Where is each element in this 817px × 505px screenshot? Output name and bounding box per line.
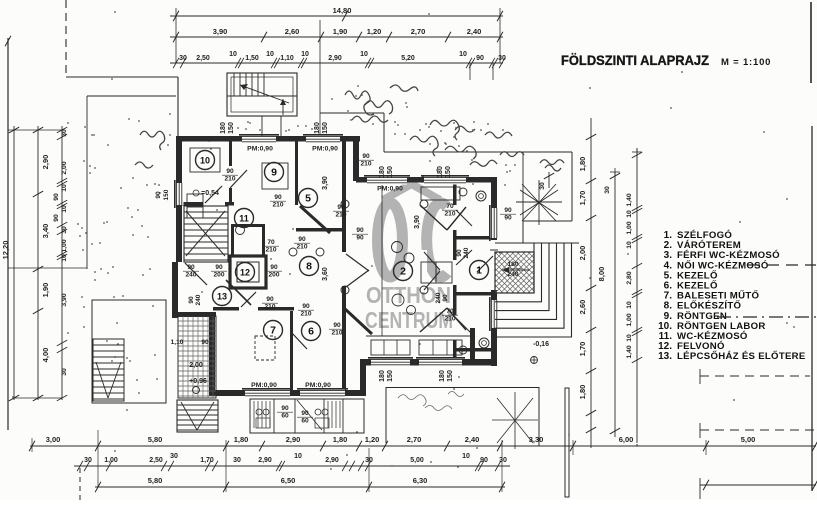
svg-text:90: 90	[53, 193, 60, 201]
svg-text:10: 10	[229, 51, 237, 58]
svg-text:210: 210	[300, 311, 311, 318]
svg-text:1: 1	[476, 265, 482, 277]
svg-text:1,50: 1,50	[245, 55, 259, 62]
svg-text:8,00: 8,00	[597, 267, 606, 282]
svg-text:LÉPCSŐHÁZ ÉS ELŐTERE: LÉPCSŐHÁZ ÉS ELŐTERE	[677, 350, 806, 362]
svg-text:6,30: 6,30	[413, 476, 428, 485]
svg-text:10: 10	[61, 254, 68, 262]
svg-text:3,40: 3,40	[41, 224, 50, 239]
frame line right	[811, 126, 813, 491]
table room 7 dashed	[255, 336, 275, 360]
svg-text:10: 10	[626, 301, 633, 309]
svg-text:1,70: 1,70	[578, 342, 587, 357]
svg-text:90: 90	[504, 215, 512, 222]
svg-text:-0,16: -0,16	[533, 341, 549, 348]
interior wall rooms 9|5	[295, 141, 298, 205]
wing inner wall vertical	[453, 183, 457, 205]
small tick line 30	[548, 172, 550, 188]
door gaps and leaves	[228, 166, 233, 188]
svg-text:3,00: 3,00	[46, 435, 61, 444]
svg-text:90: 90	[53, 214, 60, 222]
bushes	[135, 85, 564, 171]
exterior wall: wing right upper	[491, 177, 497, 240]
left frame line	[7, 38, 9, 430]
svg-text:150: 150	[447, 370, 454, 382]
bench wing top	[421, 187, 460, 200]
svg-text:150: 150	[322, 122, 329, 134]
exterior wall: inner left lower	[209, 312, 215, 396]
svg-text:90: 90	[215, 264, 223, 271]
room number 13	[213, 287, 232, 306]
svg-text:30: 30	[61, 129, 68, 137]
interior wall x343 lower	[342, 286, 346, 392]
xray table room 9	[262, 163, 288, 189]
window left wall	[175, 183, 184, 205]
svg-text:200: 200	[213, 272, 224, 279]
room number 10	[196, 151, 215, 170]
svg-text:1,00: 1,00	[104, 457, 118, 464]
svg-text:FÖLDSZINTI ALAPRAJZ: FÖLDSZINTI ALAPRAJZ	[561, 52, 709, 68]
svg-text:10: 10	[626, 334, 633, 342]
pencil scribbles terrace	[398, 392, 464, 411]
svg-text:10: 10	[360, 51, 368, 58]
interior wall rooms 10|9	[229, 140, 232, 204]
basin fixtures	[459, 188, 467, 196]
svg-text:2,40: 2,40	[467, 27, 482, 36]
right chain detail	[614, 172, 616, 437]
svg-text:210: 210	[224, 176, 235, 183]
bottom extension stubs	[97, 430, 99, 487]
svg-text:180: 180	[439, 370, 446, 382]
svg-text:10: 10	[200, 156, 210, 166]
svg-text:150: 150	[228, 122, 235, 134]
svg-text:14,80: 14,80	[333, 6, 352, 15]
garden stair far left	[92, 300, 166, 403]
svg-text:90: 90	[362, 153, 370, 160]
exterior wall: lower-left connector	[172, 312, 216, 317]
room number 7	[264, 321, 283, 340]
svg-text:10: 10	[301, 51, 309, 58]
svg-text:1,80: 1,80	[578, 385, 587, 400]
watermark OC Otthon Centrum logo	[378, 184, 448, 277]
window wing top 1	[367, 176, 407, 185]
svg-text:90: 90	[337, 204, 345, 211]
svg-text:240: 240	[185, 272, 196, 279]
svg-text:+0,96: +0,96	[189, 378, 207, 385]
svg-text:1,20: 1,20	[365, 435, 380, 444]
svg-text:9: 9	[271, 167, 277, 179]
svg-text:240: 240	[463, 247, 470, 258]
extension lines top	[175, 8, 177, 63]
basement window wells	[250, 399, 364, 433]
stair interior room13 top	[184, 206, 228, 262]
svg-text:10: 10	[266, 51, 274, 58]
room 11 walls	[231, 224, 265, 227]
svg-text:4,00: 4,00	[41, 348, 50, 363]
svg-text:13.: 13.	[658, 351, 672, 362]
chamfer wing bottom	[420, 308, 447, 332]
svg-text:3,90: 3,90	[213, 27, 228, 36]
stair top-center exterior	[227, 73, 297, 116]
svg-text:150: 150	[163, 189, 170, 200]
svg-text:2,90: 2,90	[41, 155, 50, 170]
top dimension chain 3,90 2,60 1,90 1,20 2,70 2,40	[170, 36, 503, 38]
interior wall room5|hall	[296, 228, 346, 232]
svg-text:1,90: 1,90	[333, 27, 348, 36]
exterior wall: left upper	[176, 136, 182, 262]
room number 5	[299, 189, 318, 208]
top dimension chain 14,80	[170, 15, 503, 17]
room number 1	[470, 261, 489, 280]
legend dash-dot item9	[717, 316, 816, 318]
svg-text:5,00: 5,00	[741, 435, 756, 444]
svg-text:M = 1:100: M = 1:100	[721, 57, 771, 68]
svg-text:210: 210	[335, 212, 346, 219]
svg-text:210: 210	[272, 202, 283, 209]
stair exterior below room13	[177, 400, 218, 432]
svg-text:PM:0,90: PM:0,90	[247, 146, 273, 153]
svg-text:3,90: 3,90	[414, 215, 421, 229]
svg-text:1,40: 1,40	[626, 193, 633, 206]
svg-text:90: 90	[274, 194, 282, 201]
svg-text:5,20: 5,20	[401, 55, 415, 62]
svg-text:70: 70	[446, 203, 454, 210]
svg-text:10: 10	[294, 453, 302, 460]
svg-text:30: 30	[61, 226, 68, 234]
garden boundary left	[86, 96, 88, 269]
svg-text:3,90: 3,90	[61, 293, 68, 306]
svg-text:3,90: 3,90	[322, 176, 329, 190]
site line top left	[66, 76, 178, 78]
svg-text:60: 60	[281, 413, 289, 420]
room number 9	[265, 163, 284, 182]
svg-text:10: 10	[61, 184, 68, 192]
interior wall x343 upper	[342, 140, 346, 252]
wc room 3	[476, 191, 486, 201]
right chain 1,80 1,70 2,00 2,60 1,70 1,80	[590, 118, 592, 448]
svg-text:90: 90	[356, 227, 364, 234]
svg-text:2,50: 2,50	[149, 457, 163, 464]
left chain 2,90 3,40 1,90 4,00	[37, 126, 39, 400]
svg-text:30: 30	[170, 453, 178, 460]
small fixtures hall	[316, 248, 324, 256]
svg-text:180: 180	[314, 122, 321, 134]
interior wall above rooms 7/6	[213, 307, 239, 311]
window wing right 2	[490, 300, 499, 328]
couch bay bottom 1	[371, 340, 410, 355]
bottom chain A	[30, 445, 816, 447]
svg-text:180: 180	[220, 122, 227, 134]
entry door jambs and leaf	[490, 249, 498, 251]
dashed property lines right	[700, 375, 810, 377]
svg-text:90: 90	[298, 236, 306, 243]
left horizontal connector lines	[8, 129, 62, 131]
svg-text:210: 210	[444, 211, 455, 218]
wing inner walls horizontal	[455, 236, 491, 240]
svg-text:210: 210	[265, 247, 276, 254]
terrace bottom right	[386, 387, 539, 389]
svg-text:2,70: 2,70	[411, 27, 426, 36]
svg-text:PM:0,90: PM:0,90	[377, 186, 403, 193]
svg-text:30: 30	[539, 182, 546, 190]
svg-text:10: 10	[61, 205, 68, 213]
svg-text:1,20: 1,20	[367, 27, 382, 36]
bottom chain B	[74, 465, 510, 467]
svg-text:30: 30	[61, 368, 68, 376]
window bottom 2	[300, 389, 345, 398]
svg-text:90: 90	[201, 339, 209, 346]
svg-text:8: 8	[306, 261, 312, 273]
plants room 2	[392, 242, 403, 253]
svg-text:5: 5	[305, 193, 311, 205]
svg-text:30: 30	[604, 186, 611, 194]
svg-text:1,80: 1,80	[234, 435, 249, 444]
svg-text:240: 240	[507, 271, 519, 278]
svg-text:1,00: 1,00	[61, 239, 68, 252]
svg-text:90: 90	[442, 294, 449, 302]
svg-text:200: 200	[268, 272, 279, 279]
svg-text:2,80: 2,80	[626, 271, 633, 284]
svg-text:180: 180	[379, 370, 386, 382]
svg-text:210: 210	[331, 330, 342, 337]
svg-text:180: 180	[437, 166, 444, 178]
svg-text:2,00: 2,00	[189, 362, 203, 369]
room number 2	[394, 262, 413, 281]
svg-text:90: 90	[188, 296, 195, 304]
svg-text:1,10: 1,10	[171, 339, 184, 346]
chamfer wall room5	[300, 206, 330, 233]
entry porch landing with grid	[495, 252, 534, 293]
svg-text:1,00: 1,00	[626, 313, 633, 326]
table room 2	[421, 262, 436, 283]
svg-text:2,70: 2,70	[407, 435, 422, 444]
svg-text:3,30: 3,30	[529, 435, 544, 444]
room number 6	[302, 322, 321, 341]
svg-text:90: 90	[333, 322, 341, 329]
svg-text:10: 10	[626, 210, 633, 218]
svg-text:90: 90	[270, 264, 278, 271]
tree symbol	[516, 180, 562, 225]
svg-text:240: 240	[435, 292, 442, 303]
exterior wall: step down right of main top	[353, 136, 359, 181]
svg-text:90: 90	[301, 410, 309, 417]
svg-text:90: 90	[281, 405, 289, 412]
right boundary bar	[565, 388, 569, 497]
svg-text:180: 180	[379, 166, 386, 178]
svg-text:=0,54: =0,54	[201, 190, 219, 197]
svg-text:6,00: 6,00	[619, 435, 634, 444]
svg-text:1,70: 1,70	[200, 457, 214, 464]
svg-text:1,00: 1,00	[626, 221, 633, 234]
svg-text:90: 90	[266, 296, 274, 303]
room number 8	[300, 257, 319, 276]
svg-text:90: 90	[356, 235, 364, 242]
bottom chain C	[95, 486, 505, 488]
frame line top right	[810, 2, 812, 83]
svg-text:60: 60	[301, 418, 309, 425]
svg-text:90: 90	[480, 457, 488, 464]
svg-text:11: 11	[239, 214, 249, 224]
elevator shaft room 12	[230, 256, 266, 288]
window wing top 2	[424, 176, 466, 185]
tiled hall room13	[178, 316, 216, 398]
svg-text:2,90: 2,90	[258, 457, 272, 464]
svg-text:5,80: 5,80	[148, 476, 163, 485]
svg-text:10: 10	[626, 241, 633, 249]
svg-text:CENTRUM: CENTRUM	[365, 307, 453, 333]
svg-text:30: 30	[233, 457, 241, 464]
svg-text:30: 30	[499, 457, 507, 464]
garden path boundary top middle	[320, 112, 384, 114]
svg-text:2,40: 2,40	[465, 435, 480, 444]
svg-text:30: 30	[84, 457, 92, 464]
exterior wall: top of main block	[176, 136, 360, 142]
svg-text:7: 7	[270, 325, 276, 337]
svg-text:1,80: 1,80	[333, 435, 348, 444]
exterior wall: wing right lower	[491, 290, 497, 366]
svg-text:PM:0,90: PM:0,90	[312, 146, 338, 153]
svg-text:90: 90	[226, 168, 234, 175]
exterior wall: step bottom mid	[360, 362, 366, 396]
svg-text:150: 150	[445, 166, 452, 178]
window top wall 2	[306, 135, 340, 144]
left detail chain	[61, 126, 63, 400]
wc room 4	[479, 338, 489, 348]
svg-text:1,70: 1,70	[578, 191, 587, 206]
entry porch steps	[495, 243, 572, 337]
svg-text:90: 90	[302, 303, 310, 310]
svg-text:240: 240	[195, 294, 202, 305]
svg-text:2,00: 2,00	[61, 161, 68, 174]
chamfer wing top	[420, 205, 447, 230]
svg-text:150: 150	[387, 370, 394, 382]
window bottom 1	[245, 389, 290, 398]
svg-text:2,60: 2,60	[285, 27, 300, 36]
couch bay bottom 2	[419, 340, 462, 355]
svg-text:6: 6	[308, 326, 314, 338]
dashed boundary top left	[65, 0, 67, 77]
svg-text:30: 30	[498, 55, 506, 62]
svg-text:90: 90	[504, 207, 512, 214]
svg-text:PM:0,90: PM:0,90	[251, 382, 277, 389]
exterior wall: main bottom	[209, 390, 366, 396]
svg-text:1,40: 1,40	[626, 345, 633, 358]
svg-text:1,80: 1,80	[578, 157, 587, 172]
interior wall rooms 7|6	[290, 311, 293, 391]
svg-text:2,50: 2,50	[196, 55, 210, 62]
svg-text:5,80: 5,80	[148, 435, 163, 444]
svg-text:2,60: 2,60	[578, 300, 587, 315]
furniture room 10	[187, 194, 203, 205]
svg-text:210: 210	[444, 316, 455, 323]
svg-text:180: 180	[507, 261, 519, 268]
svg-text:30: 30	[179, 55, 187, 62]
svg-text:1,10: 1,10	[280, 55, 294, 62]
svg-text:12,20: 12,20	[1, 241, 10, 260]
legend dashes item4	[748, 264, 816, 266]
svg-text:210: 210	[296, 244, 307, 251]
exterior wall: left lower	[172, 262, 178, 318]
svg-text:6,50: 6,50	[281, 476, 296, 485]
svg-text:2,90: 2,90	[328, 55, 342, 62]
svg-text:210: 210	[264, 304, 275, 311]
window bay bottom 1	[371, 358, 410, 367]
svg-text:2,00: 2,00	[578, 246, 587, 261]
window wing right 1	[490, 208, 499, 238]
pier circles	[341, 200, 349, 208]
left chain 12,20 total	[13, 126, 15, 400]
svg-text:2,90: 2,90	[325, 457, 339, 464]
svg-text:3,60: 3,60	[322, 267, 329, 281]
window top wall 1	[242, 135, 276, 144]
svg-text:10: 10	[462, 453, 470, 460]
svg-text:70: 70	[267, 239, 275, 246]
svg-text:13: 13	[217, 292, 227, 302]
top dimension chain 30 2,50 10 1,50 10 1,10 10 2,90 10 5,20 10 90 30	[170, 62, 503, 64]
svg-text:70: 70	[446, 308, 454, 315]
svg-text:90: 90	[187, 264, 195, 271]
svg-text:90: 90	[155, 191, 162, 199]
room number 11	[235, 209, 254, 228]
window bay bottom 2	[419, 358, 462, 367]
room number 12	[236, 263, 255, 282]
svg-text:2: 2	[400, 266, 406, 278]
bay opening beam line	[366, 335, 470, 337]
svg-text:12: 12	[240, 268, 250, 278]
svg-text:210: 210	[360, 161, 371, 168]
svg-text:1,90: 1,90	[41, 283, 50, 298]
svg-text:90: 90	[476, 55, 484, 62]
interior wall below room 10	[176, 202, 234, 206]
exterior wall: bay bottom	[360, 359, 497, 366]
bottom right dim 5,00 lower	[700, 484, 816, 486]
svg-text:2,90: 2,90	[286, 435, 301, 444]
chamfer wall room6|2	[344, 308, 372, 334]
svg-text:150: 150	[387, 166, 394, 178]
svg-text:10: 10	[459, 51, 467, 58]
exterior wall: wing top	[356, 177, 497, 183]
svg-text:PM:0,90: PM:0,90	[305, 382, 331, 389]
interior wall room4 right	[470, 328, 475, 362]
svg-text:5,00: 5,00	[410, 457, 424, 464]
svg-text:90: 90	[456, 249, 463, 257]
